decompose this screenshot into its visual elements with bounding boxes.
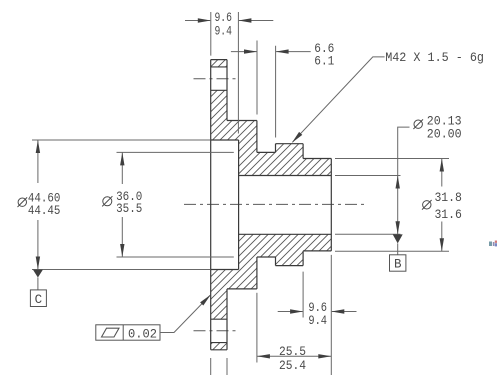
dim 6.6/6.1 dimension line xyxy=(231,51,311,53)
dim dia44.60/44.45 extension lines xyxy=(32,140,210,270)
datum C triangle xyxy=(33,270,43,278)
dim dia20.13 top arrow xyxy=(396,176,400,189)
dia44.60 diameter symbol xyxy=(18,197,28,207)
counterbore upper edge xyxy=(211,139,239,141)
thread end face upper xyxy=(302,144,304,159)
step face upper xyxy=(256,121,258,153)
dim dia31.8/31.6 dimension line xyxy=(441,159,443,252)
svg-text:9.4: 9.4 xyxy=(214,25,232,39)
hatch flange upper web xyxy=(211,90,227,140)
dia20.13 diameter symbol xyxy=(413,119,423,129)
dim 6.6/6.1 extension lines xyxy=(257,41,276,138)
hatch flange upper rim xyxy=(211,60,227,67)
dim 9.6/9.4 top dimension line xyxy=(185,20,273,22)
flange right face upper xyxy=(226,60,228,121)
dim dia31.8 bottom arrow xyxy=(440,238,444,251)
dim 9.6/9.4 top left arrow xyxy=(198,18,211,22)
dim 25.5/25.4 right arrow xyxy=(318,354,331,358)
dim 9.6/9.4 top right arrow xyxy=(238,18,251,22)
svg-text:M42 X 1.5 - 6g: M42 X 1.5 - 6g xyxy=(385,51,484,65)
hatch flange lower rim xyxy=(211,343,227,350)
svg-text:6.1: 6.1 xyxy=(314,55,334,69)
dim dia44.60 bottom arrow xyxy=(36,257,40,270)
datum B stem xyxy=(397,243,399,254)
lower bolt hole centerline xyxy=(194,330,240,332)
bore lower edge xyxy=(239,233,332,235)
dim 25.5/25.4 dimension line xyxy=(257,355,331,357)
svg-text:9.6: 9.6 xyxy=(214,11,232,25)
dim 9.6/9.4 bottom extension lines xyxy=(303,255,331,375)
lower bolt hole edges xyxy=(211,319,227,342)
pilot od lower xyxy=(303,250,331,252)
dim 9.6/9.4 top extension lines xyxy=(211,12,239,134)
dim 25.5/25.4 left arrow xyxy=(257,354,270,358)
svg-text:C: C xyxy=(35,293,43,307)
flatness frame box xyxy=(96,325,160,340)
upper bolt hole edges xyxy=(211,67,227,90)
dim dia36.0 top arrow xyxy=(120,152,124,165)
thread crest lower xyxy=(276,265,304,267)
flange bottom edge xyxy=(211,349,227,351)
svg-text:25.4: 25.4 xyxy=(279,359,306,373)
hatch flange lower web xyxy=(211,270,227,320)
flatness leader xyxy=(160,295,210,332)
upper bolt hole centerline xyxy=(194,78,240,80)
flatness parallelogram symbol xyxy=(102,328,120,337)
flatness leader arrow xyxy=(200,295,211,306)
svg-text:44.45: 44.45 xyxy=(28,204,61,218)
svg-text:25.5: 25.5 xyxy=(279,345,306,359)
watermark speck xyxy=(489,241,497,247)
svg-text:20.00: 20.00 xyxy=(427,128,462,142)
thread start face lower xyxy=(275,257,277,266)
dim 9.6/9.4 bottom right arrow xyxy=(331,309,344,313)
flange left face xyxy=(210,60,212,350)
dim dia36.0 bottom arrow xyxy=(120,244,124,257)
dim 6.6/6.1 right arrow xyxy=(276,49,289,53)
datum C box xyxy=(30,290,46,307)
hatch hub upper xyxy=(227,121,331,176)
dim dia20.13 bottom arrow xyxy=(396,221,400,234)
dia31.8 diameter symbol xyxy=(422,200,432,210)
flange right face lower xyxy=(226,289,228,350)
thread callout leader xyxy=(293,57,385,142)
step top surface xyxy=(227,120,257,122)
datum B triangle xyxy=(393,234,403,243)
hub right face xyxy=(330,159,332,251)
step face lower xyxy=(256,257,258,289)
svg-text:9.4: 9.4 xyxy=(308,314,327,328)
svg-text:9.6: 9.6 xyxy=(308,301,327,315)
flatness frame divider xyxy=(122,325,124,340)
step bottom surface xyxy=(227,288,257,290)
bore upper edge xyxy=(239,175,332,177)
dim dia44.60 top arrow xyxy=(36,140,40,153)
dim dia31.8/31.6 extension lines xyxy=(335,159,449,252)
thread end face lower xyxy=(302,251,304,266)
svg-text:31.8: 31.8 xyxy=(434,191,462,205)
flange thickness extension lines below view xyxy=(211,358,227,375)
dim dia44.60/44.45 dimension line xyxy=(37,140,39,270)
dim 9.6/9.4 bottom left arrow xyxy=(290,309,303,313)
dim dia20.13/20.00 extension lines xyxy=(335,176,401,235)
dim dia20.13/20.00 dimension line with elbow xyxy=(398,127,410,234)
dim dia36.0/35.5 extension lines xyxy=(117,152,234,257)
dim 6.6/6.1 left arrow xyxy=(244,49,257,53)
pilot od upper xyxy=(303,158,331,160)
svg-text:20.13: 20.13 xyxy=(427,114,462,128)
dia36.0 diameter symbol xyxy=(102,196,112,206)
thread crest upper xyxy=(276,143,304,145)
groove bottom upper xyxy=(257,151,276,153)
dim 9.6/9.4 bottom dimension line xyxy=(278,311,357,313)
counterbore lower edge xyxy=(211,269,239,271)
main centerline xyxy=(184,203,368,205)
hatch hub lower xyxy=(227,234,331,289)
svg-text:35.5: 35.5 xyxy=(116,202,142,216)
thread start face upper xyxy=(275,144,277,153)
svg-text:B: B xyxy=(394,258,402,272)
datum B box xyxy=(390,255,406,271)
flange top edge xyxy=(211,59,227,61)
svg-text:31.6: 31.6 xyxy=(434,208,462,222)
counterbore shoulder xyxy=(238,140,240,270)
groove bottom lower xyxy=(257,256,276,258)
dim dia36.0/35.5 dimension line xyxy=(121,152,123,257)
dim 25.5/25.4 extension line xyxy=(256,293,258,363)
svg-text:0.02: 0.02 xyxy=(128,328,157,342)
dim dia31.8 top arrow xyxy=(440,159,444,172)
datum C stem xyxy=(37,278,39,290)
thread callout arrow xyxy=(292,132,303,143)
